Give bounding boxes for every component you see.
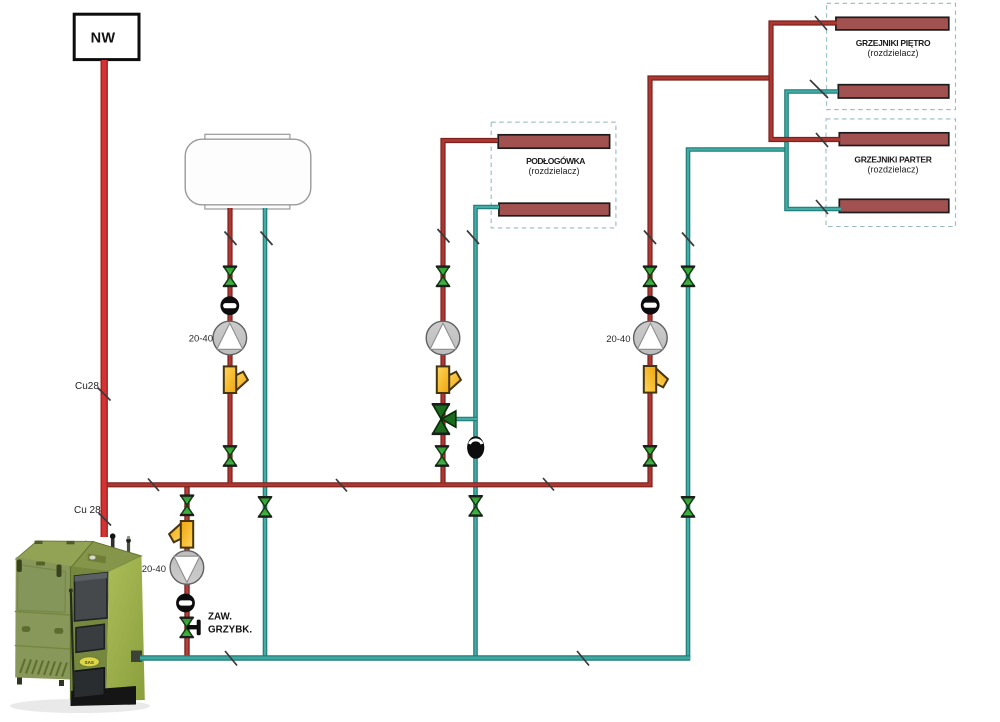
pipe red radiator supplies xyxy=(771,23,840,140)
svg-text:GRZEJNIKI PARTER: GRZEJNIKI PARTER xyxy=(854,155,931,165)
manifold box GRZEJNIKI PIETRO xyxy=(827,3,956,109)
manifold bar PARTER return xyxy=(839,199,949,212)
boiler door middle xyxy=(76,624,104,652)
svg-text:GRZYBK.: GRZYBK. xyxy=(208,625,252,636)
boiler vent slats xyxy=(20,659,67,677)
pump P2 floor branch xyxy=(426,321,460,355)
boiler top fittings xyxy=(84,533,131,555)
slash main line left xyxy=(148,479,159,492)
pipe red NW riser xyxy=(100,60,107,537)
valve V5 floor return xyxy=(469,496,483,515)
slash main line mid xyxy=(336,479,347,492)
svg-text:20-40: 20-40 xyxy=(142,564,166,575)
yellow valve right branch xyxy=(644,366,668,393)
boiler seam xyxy=(70,566,72,700)
pipe red boiler-branch vertical xyxy=(184,485,189,658)
svg-text:(rozdzielacz): (rozdzielacz) xyxy=(867,48,918,58)
manifold bar PODLOGOWKA return xyxy=(499,203,610,216)
valve V6 right branch upper xyxy=(643,267,657,286)
valve V2 tank branch lower xyxy=(223,446,237,465)
manifold bar PIETRO supply xyxy=(836,17,949,30)
manifold box PODLOGOWKA xyxy=(491,122,616,228)
boiler feet xyxy=(17,678,22,685)
valve V4 floor branch lower xyxy=(435,446,449,465)
yellow valve floor branch xyxy=(437,366,461,393)
boiler hopper front xyxy=(15,557,70,679)
pump P3 right branch xyxy=(634,321,668,355)
pipe-break slashes xyxy=(148,16,828,666)
svg-text:Cu28: Cu28 xyxy=(75,381,99,392)
pump P4 boiler branch xyxy=(170,551,204,585)
valve V10 tank return xyxy=(258,497,272,516)
boiler door lower xyxy=(74,668,105,699)
valve V7 right branch lower xyxy=(643,446,657,465)
slash parter return xyxy=(816,200,828,214)
boiler door upper xyxy=(75,573,108,621)
slash main line right xyxy=(543,478,554,491)
manifold bar PARTER supply xyxy=(839,133,949,146)
svg-text:(rozdzielacz): (rozdzielacz) xyxy=(867,165,918,175)
pipe teal floor-manifold return xyxy=(476,207,500,658)
boiler shadow xyxy=(10,699,150,713)
boiler logo SAS xyxy=(79,657,99,667)
slash parter supply xyxy=(816,133,828,147)
mushroom valve with T handle xyxy=(180,618,201,637)
yellow valve boiler branch xyxy=(169,521,193,548)
manifold bar PODLOGOWKA supply xyxy=(498,135,609,148)
svg-text:(rozdzielacz): (rozdzielacz) xyxy=(528,166,579,176)
slash floor red xyxy=(438,229,450,243)
check ball right branch xyxy=(641,296,660,315)
slash pietro supply xyxy=(815,16,827,30)
slash right teal xyxy=(682,233,694,247)
check ball boiler branch xyxy=(176,594,195,613)
svg-text:GRZEJNIKI PIĘTRO: GRZEJNIKI PIĘTRO xyxy=(856,38,931,48)
svg-text:20-40: 20-40 xyxy=(606,334,630,345)
label Cu28 upper with pointer xyxy=(75,381,111,401)
valve V11 boiler branch upper xyxy=(180,496,194,515)
yellow valve tank branch xyxy=(224,366,248,393)
svg-text:Cu 28: Cu 28 xyxy=(74,505,101,516)
svg-text:PODŁOGÓWKA: PODŁOGÓWKA xyxy=(526,155,585,166)
pipe teal right return riser xyxy=(688,150,788,659)
pump P1 tank branch xyxy=(213,321,247,355)
NW box xyxy=(74,14,139,59)
valve V8 right return upper xyxy=(681,267,695,286)
thermometer ball floor return xyxy=(467,436,484,459)
boiler hopper lid xyxy=(16,541,93,567)
svg-text:SAS: SAS xyxy=(85,660,94,665)
label Cu 28 lower with pointer xyxy=(74,505,111,526)
pipe teal radiator returns xyxy=(787,92,842,210)
pipe red tank branch xyxy=(227,208,232,483)
slash tank teal xyxy=(261,232,273,246)
three-way mixing valve xyxy=(432,404,456,434)
slash pietro return xyxy=(810,80,828,98)
boiler hopper latches xyxy=(17,560,22,573)
expansion tank xyxy=(185,134,311,209)
boiler return fitting xyxy=(131,651,142,663)
boiler xyxy=(10,533,150,713)
boiler right front face xyxy=(71,566,110,701)
svg-text:NW: NW xyxy=(91,31,116,47)
pipe teal mixing-valve stub xyxy=(450,417,477,422)
manifold box GRZEJNIKI PARTER xyxy=(826,119,956,227)
boiler door handle rod xyxy=(71,590,74,688)
svg-text:ZAW.: ZAW. xyxy=(208,612,232,623)
boiler right side panel xyxy=(107,556,145,701)
valve V9 right return lower xyxy=(681,497,695,516)
slash right red xyxy=(644,231,656,245)
boiler top deck xyxy=(72,542,142,572)
svg-text:20-40: 20-40 xyxy=(189,334,213,345)
pipe teal bottom return main xyxy=(140,655,690,661)
slash floor teal xyxy=(467,231,479,245)
check ball tank branch xyxy=(220,296,239,315)
boiler base xyxy=(71,686,137,706)
slash tank red xyxy=(225,232,237,246)
pipe red floor-manifold supply xyxy=(443,141,498,484)
valve V3 floor branch upper xyxy=(436,267,450,286)
slash bottom teal right xyxy=(577,651,589,666)
slash bottom teal left xyxy=(225,651,237,666)
manifold bar PIETRO return xyxy=(838,85,949,98)
label ZAW GRZYBK xyxy=(208,612,252,636)
pipe red main supply horizontal + right riser xyxy=(102,78,772,485)
valve V1 tank branch upper xyxy=(223,267,237,286)
pipe teal tank return vertical xyxy=(263,208,268,658)
